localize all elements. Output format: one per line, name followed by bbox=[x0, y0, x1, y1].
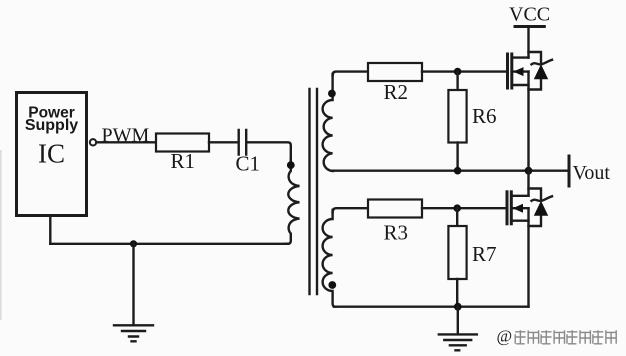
resistor R7 bbox=[448, 226, 466, 279]
wire Vout rail to Q2 drain bbox=[527, 171, 529, 196]
transformer T1 secondary winding (top) bbox=[323, 74, 333, 171]
wire power supply box to primary return rail bbox=[49, 216, 51, 244]
Q2 source stub bbox=[513, 219, 529, 221]
wire primary return rail bbox=[50, 243, 288, 245]
node R6/rail junction bbox=[454, 167, 462, 175]
svg-text:Supply: Supply bbox=[25, 117, 78, 134]
svg-text:R6: R6 bbox=[472, 104, 497, 128]
node Q1 source / Q2 drain junction bbox=[525, 167, 533, 175]
resistor R1 bbox=[156, 134, 209, 152]
capacitor C1 bbox=[239, 130, 247, 155]
transformer T1 core bbox=[310, 89, 318, 294]
Q2 drain stub bbox=[513, 195, 529, 197]
wire Q1 source down to Vout rail bbox=[527, 72, 529, 171]
watermark @ sign bbox=[497, 327, 513, 346]
wire junction to R6 top bbox=[456, 72, 458, 90]
watermark CJK glyph blocks bbox=[515, 330, 616, 344]
svg-text:Vout: Vout bbox=[573, 162, 611, 184]
transformer primary phase dot bbox=[287, 161, 295, 169]
svg-text:IC: IC bbox=[38, 139, 65, 169]
wire Q2 source down to ground rail bbox=[527, 208, 529, 307]
label PWM bbox=[102, 125, 150, 147]
svg-text:C1: C1 bbox=[236, 152, 261, 176]
node gate junction Q1 bbox=[454, 68, 462, 76]
transformer T1 primary winding bbox=[285, 160, 300, 244]
label IC bbox=[38, 139, 65, 169]
node gate junction Q2 bbox=[453, 204, 461, 212]
wire junction down to ground bbox=[132, 244, 134, 325]
label R3 bbox=[384, 221, 409, 245]
transistor Q2 (N-MOSFET) gate bar bbox=[506, 192, 509, 224]
Q1 source stub bbox=[513, 84, 529, 86]
wire R1 to C1 bbox=[209, 141, 238, 143]
wire R2 to gate of Q1 bbox=[422, 70, 507, 72]
Q1 body stub with arrow bbox=[513, 67, 529, 76]
wire C1 to transformer primary bbox=[247, 142, 290, 162]
wire R3 to gate of Q2 bbox=[422, 207, 506, 209]
resistor R3 bbox=[368, 200, 422, 218]
node PWM output pin (open circle) bbox=[90, 139, 96, 145]
node ground junction left bbox=[130, 240, 137, 247]
label Supply bbox=[25, 117, 78, 134]
body diode D2 triangle bbox=[534, 201, 548, 216]
wire top secondary to R2 bbox=[333, 72, 368, 75]
body diode D2 branch wires bbox=[529, 189, 542, 227]
wire junction to R7 top bbox=[456, 208, 458, 226]
svg-text:R1: R1 bbox=[171, 149, 196, 173]
label Vout bbox=[573, 162, 611, 184]
VCC terminal bar bbox=[515, 25, 544, 28]
svg-text:@: @ bbox=[497, 327, 513, 346]
label R7 bbox=[472, 242, 497, 266]
body diode D1 branch wires bbox=[529, 52, 542, 90]
Q1 drain stub bbox=[513, 56, 529, 58]
svg-text:R7: R7 bbox=[472, 242, 497, 266]
body diode D1 triangle bbox=[534, 64, 548, 79]
wire R7 bottom to ground rail bbox=[456, 279, 458, 307]
ground symbol right bbox=[439, 334, 477, 350]
terminal Vout tick bbox=[568, 156, 571, 186]
Q2 body stub with arrow bbox=[513, 204, 529, 213]
transformer T1 secondary winding (bottom) bbox=[323, 210, 336, 307]
ground symbol left bbox=[114, 325, 153, 341]
label VCC bbox=[509, 4, 550, 26]
svg-text:R2: R2 bbox=[384, 80, 409, 104]
resistor R2 bbox=[368, 63, 422, 81]
wire junction down to ground right bbox=[457, 307, 459, 334]
svg-text:R3: R3 bbox=[384, 221, 409, 245]
wire VCC to Q1 drain bbox=[527, 27, 529, 58]
top secondary phase dot bbox=[328, 90, 336, 98]
body diode D2 cathode bar (bent) bbox=[532, 196, 553, 201]
svg-text:VCC: VCC bbox=[509, 4, 550, 26]
wire Vout rail bbox=[333, 169, 569, 171]
Q1 channel bar bbox=[510, 54, 513, 88]
wire R6 bottom to Vout rail bbox=[456, 143, 458, 171]
label R6 bbox=[472, 104, 497, 128]
wire bottom ground rail bbox=[334, 306, 529, 308]
transistor Q1 (N-MOSFET) gate bar bbox=[506, 54, 509, 88]
wire PWM node to R1 bbox=[97, 141, 157, 143]
node R7/ground rail junction bbox=[454, 303, 462, 311]
body diode D1 cathode bar (bent) bbox=[532, 60, 553, 65]
label R2 bbox=[384, 80, 409, 104]
label C1 bbox=[236, 152, 261, 176]
resistor R6 bbox=[448, 90, 466, 143]
power supply IC U1 box bbox=[17, 93, 87, 216]
label Power bbox=[28, 105, 75, 122]
Q2 channel bar bbox=[510, 192, 513, 224]
wire R3 feed: bottom secondary top to R3 bbox=[333, 208, 368, 212]
left edge artifact streak bbox=[0, 150, 2, 320]
bottom secondary phase dot bbox=[328, 281, 336, 289]
label R1 bbox=[171, 149, 196, 173]
